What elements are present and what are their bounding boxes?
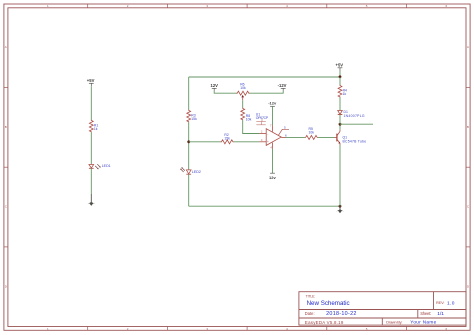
wire Q1 emitter to bottom rail — [339, 145, 341, 206]
+5V flag (left branch) — [87, 78, 95, 86]
wire LED2 down to bottom rail — [188, 174, 190, 206]
resistor R5 — [305, 135, 318, 139]
svg-text:OP07CP: OP07CP — [256, 116, 269, 120]
resistor R4 — [339, 77, 341, 85]
svg-text:-12v: -12v — [268, 101, 277, 106]
svg-text:B: B — [5, 125, 7, 129]
pin 4 stub — [272, 143, 274, 149]
+5V flag (main) — [336, 62, 344, 71]
op-amp U1 OP07CP — [256, 113, 289, 150]
transistor Q1 — [334, 130, 366, 145]
pin 1 balance bar — [261, 122, 263, 125]
wire LED1 to ground — [90, 168, 92, 194]
svg-text:-12V: -12V — [278, 83, 287, 88]
wire R1 to LED1 — [90, 132, 92, 164]
svg-text:Sheet:: Sheet: — [420, 311, 431, 316]
wire -12V to pot R6 — [250, 91, 284, 94]
svg-text:2018-10-22: 2018-10-22 — [326, 311, 357, 317]
LED LED2 — [180, 167, 201, 174]
-12V flag — [278, 83, 287, 90]
pin 8 balance bar — [261, 119, 263, 122]
LED LED1 — [89, 164, 111, 169]
svg-text:EasyEDA V5.8.19: EasyEDA V5.8.19 — [305, 320, 344, 325]
svg-text:1k: 1k — [94, 127, 98, 131]
svg-text:+: + — [267, 140, 269, 144]
svg-text:Drawn By:: Drawn By: — [386, 320, 402, 325]
svg-text:-: - — [267, 132, 268, 136]
wire R5 to Q1 base — [318, 136, 334, 138]
pin 5 stub — [279, 129, 290, 135]
wire R8 to op-amp pin 2 — [243, 120, 260, 133]
triangle body — [266, 129, 281, 146]
svg-text:LED2: LED2 — [192, 170, 201, 174]
svg-text:Date:: Date: — [305, 311, 315, 316]
pin 2 stub — [259, 133, 266, 135]
wire R3 to LED2 — [188, 122, 190, 170]
wire 12V to pot R6 — [214, 91, 236, 94]
wire +5V to R1 — [90, 86, 92, 120]
potentiometer R6 — [236, 91, 249, 95]
left rail wire down to R3 — [188, 77, 190, 110]
12V flag — [211, 83, 219, 90]
resistor R2 — [221, 140, 234, 144]
wire R2 to op-amp pin 3 — [234, 141, 260, 143]
resistor R1 — [89, 120, 93, 133]
svg-text:TITLE:: TITLE: — [306, 294, 316, 298]
ground (main) — [336, 206, 344, 213]
svg-text:A: A — [467, 45, 469, 49]
wire R4 to D1 — [339, 97, 341, 110]
svg-text:Your Name: Your Name — [410, 320, 436, 325]
top rail wire — [189, 76, 340, 78]
svg-text:+5V: +5V — [87, 78, 95, 83]
svg-text:New Schematic: New Schematic — [307, 300, 350, 307]
node R2 branch junction — [187, 140, 190, 143]
resistor R3 — [187, 110, 191, 123]
svg-text:B: B — [467, 125, 469, 129]
wire op-amp output to R5 — [286, 136, 305, 138]
wire Q1 collector to D1 junction — [339, 124, 341, 129]
-12v flag (op-amp V+) — [268, 101, 277, 107]
svg-text:10k: 10k — [309, 131, 315, 135]
svg-text:1k: 1k — [343, 92, 347, 96]
svg-text:10k: 10k — [246, 117, 252, 121]
svg-text:15k: 15k — [224, 136, 230, 140]
svg-text:1N4007PLG: 1N4007PLG — [344, 114, 365, 118]
svg-text:12v: 12v — [269, 175, 276, 180]
wire pot wiper to R8 — [242, 100, 244, 108]
diode D1 — [338, 110, 365, 118]
wire +5V down to top rail junction — [339, 71, 341, 77]
svg-text:15k: 15k — [191, 117, 197, 121]
svg-text:LED1: LED1 — [102, 164, 111, 168]
12v flag (op-amp V-) — [269, 173, 276, 180]
node bottom rail junction — [339, 205, 342, 208]
svg-text:A: A — [5, 45, 7, 49]
svg-text:12V: 12V — [211, 83, 219, 88]
ground (left branch) — [87, 194, 95, 206]
wire stub to the right — [340, 123, 373, 125]
svg-text:1.0: 1.0 — [447, 300, 455, 306]
pot R6 wiper arrow — [241, 95, 244, 98]
svg-text:10k: 10k — [240, 86, 246, 90]
bottom rail wire — [189, 205, 340, 207]
wire D1 to collector junction — [339, 115, 341, 125]
svg-text:1/1: 1/1 — [437, 311, 444, 317]
svg-text:+5V: +5V — [336, 62, 344, 67]
node top rail junction — [339, 75, 342, 78]
resistor R8 — [241, 108, 245, 121]
wire pin 4 to 12v flag — [272, 149, 274, 173]
pin 6 stub — [281, 136, 285, 138]
wire -12v to pin 7 — [272, 106, 274, 125]
svg-text:BC547B Tube: BC547B Tube — [343, 140, 367, 144]
wire R2 net: junction to R2 — [189, 141, 221, 143]
pin 7 stub — [272, 125, 274, 131]
node collector junction — [339, 123, 342, 126]
svg-text:REV:: REV: — [436, 301, 444, 305]
pin 3 stub — [259, 141, 266, 143]
